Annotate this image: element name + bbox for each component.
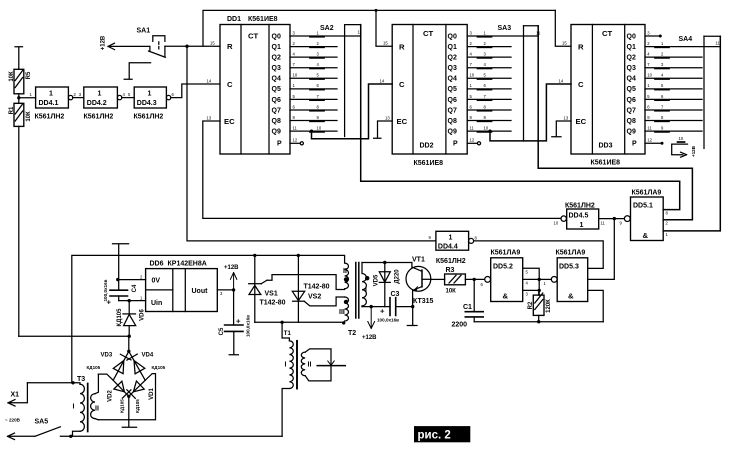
svg-text:Q5: Q5 — [627, 86, 636, 93]
svg-text:К561ЛН2: К561ЛН2 — [35, 114, 65, 121]
svg-text:VD3: VD3 — [101, 353, 113, 359]
svg-text:1: 1 — [148, 91, 152, 98]
wire DD6 Uout to +12V node — [217, 289, 233, 291]
bridge right corner loop to T3 II bottom — [98, 374, 155, 420]
svg-text:11: 11 — [470, 126, 475, 131]
svg-text:Q0: Q0 — [272, 33, 281, 40]
svg-text:100,0х16в: 100,0х16в — [246, 315, 251, 337]
svg-text:10: 10 — [293, 73, 298, 78]
diode VD6 КД105 — [117, 301, 145, 337]
svg-text:Q7: Q7 — [448, 107, 457, 114]
wire junction to R1 — [18, 98, 20, 104]
svg-text:13: 13 — [385, 116, 390, 121]
svg-text:Q1: Q1 — [448, 44, 457, 51]
svg-text:P: P — [277, 141, 282, 148]
svg-text:II: II — [343, 268, 347, 275]
bridge rectifier VD1-VD4 КД105 — [87, 336, 166, 427]
svg-text:VD4: VD4 — [142, 353, 154, 359]
+12V arrow at DD6 output — [230, 273, 236, 290]
wire DD4.2 to DD4.3 — [122, 97, 134, 99]
svg-text:КД105: КД105 — [135, 399, 140, 413]
inverter DD4.1 — [35, 87, 73, 121]
svg-text:DD5.3: DD5.3 — [559, 263, 579, 270]
svg-text:1: 1 — [580, 222, 584, 229]
svg-text:12: 12 — [293, 138, 298, 143]
counter DD1 К561ИЕ8 — [207, 16, 291, 154]
wire T2-II bottom to VS1 gate — [267, 275, 345, 290]
diode VD4 top-right edge — [129, 351, 145, 380]
svg-text:К561ИЕ8: К561ИЕ8 — [414, 160, 444, 167]
svg-text:10К: 10К — [26, 111, 32, 122]
counter DD3 К561ИЕ8 — [559, 25, 646, 167]
svg-text:III: III — [339, 309, 345, 316]
svg-text:рис. 2: рис. 2 — [418, 430, 451, 442]
svg-text:Q4: Q4 — [627, 76, 636, 83]
inverter DD4.5 — [554, 203, 599, 230]
svg-text:С5: С5 — [219, 327, 225, 335]
svg-text:1: 1 — [98, 91, 102, 98]
NAND gate DD5.2 — [481, 250, 523, 302]
svg-text:КТ315: КТ315 — [413, 298, 434, 305]
svg-text:1: 1 — [449, 234, 453, 241]
svg-text:Q7: Q7 — [272, 107, 281, 114]
svg-text:C1: C1 — [463, 304, 472, 311]
svg-text:К561ЛН2: К561ЛН2 — [134, 114, 164, 121]
220V bottom rail — [60, 435, 282, 437]
svg-text:К561ЛН2: К561ЛН2 — [84, 114, 114, 121]
R bus top wire — [203, 10, 555, 46]
svg-text:CT: CT — [602, 29, 613, 38]
svg-text:II: II — [308, 362, 312, 369]
svg-text:SA5: SA5 — [35, 419, 49, 426]
svg-text:R: R — [578, 43, 584, 52]
svg-text:Q2: Q2 — [448, 55, 457, 62]
svg-text:EC: EC — [397, 117, 408, 126]
svg-text:С4: С4 — [132, 284, 138, 292]
svg-text:EC: EC — [576, 117, 587, 126]
svg-text:DD4.3: DD4.3 — [137, 100, 157, 107]
svg-text:R2: R2 — [528, 301, 534, 309]
SA4 common down to DD5.1 pin 1 — [663, 36, 720, 231]
svg-text:DD6: DD6 — [150, 261, 164, 268]
svg-text:Q0: Q0 — [627, 33, 636, 40]
svg-text:CT: CT — [423, 29, 434, 38]
wire SA1 to DD1 R — [165, 45, 220, 47]
svg-text:14: 14 — [380, 79, 385, 84]
inverter DD4.3 — [134, 87, 171, 121]
svg-text:К561ЛА9: К561ЛА9 — [632, 190, 662, 197]
resistor R3 — [431, 267, 484, 295]
svg-text:VD5: VD5 — [373, 274, 379, 286]
svg-text:10К: 10К — [9, 71, 15, 82]
bottom rail C1-R2-DD5.3 — [474, 321, 603, 323]
svg-text:VD1: VD1 — [149, 388, 155, 400]
svg-text:10: 10 — [554, 221, 559, 226]
svg-text:II: II — [95, 406, 99, 413]
wire DD4.1 to DD4.2 — [73, 97, 84, 99]
wire DD1 Q9 to DD2 C — [312, 84, 393, 139]
terminal bar above R5 — [15, 47, 23, 70]
+12V arrow under T2 winding I — [362, 305, 377, 341]
connector X1 arrows — [8, 383, 73, 406]
svg-text:К561ЛА9: К561ЛА9 — [556, 250, 586, 257]
switch SA3 — [498, 25, 542, 141]
svg-text:SA1: SA1 — [137, 28, 151, 35]
diode VD5 Д220 — [373, 263, 400, 307]
svg-text:11: 11 — [601, 221, 606, 226]
svg-text:VD6: VD6 — [139, 309, 145, 321]
svg-text:I: I — [285, 362, 287, 369]
svg-text:Q8: Q8 — [627, 118, 636, 125]
switch SA2 — [320, 25, 363, 137]
svg-text:К561ЛН2: К561ЛН2 — [436, 258, 466, 265]
resistor R2 — [528, 293, 552, 322]
switch SA5 — [5, 418, 60, 440]
svg-text:К561ЛА9: К561ЛА9 — [491, 250, 521, 257]
DD5.2 input pins 3,4,5 tied — [523, 268, 540, 295]
svg-text:+12В: +12В — [224, 265, 239, 271]
wire T2-III top to VS2 gate — [304, 297, 344, 306]
svg-text:Q3: Q3 — [272, 65, 281, 72]
svg-text:14: 14 — [559, 79, 564, 84]
wire R bus to DD3 R — [555, 10, 571, 46]
svg-text:Q5: Q5 — [448, 86, 457, 93]
thyristor VS1 Т142-80 — [249, 255, 286, 322]
svg-text:15: 15 — [383, 41, 388, 46]
svg-text:15: 15 — [210, 41, 215, 46]
svg-text:Q8: Q8 — [448, 118, 457, 125]
svg-text:100,0х16в: 100,0х16в — [377, 318, 399, 323]
bridge minus lead and bar — [127, 395, 130, 398]
regulator DD6 КР142ЕН8А — [146, 261, 218, 312]
SA2 common down and to DD5.1 pin 8 — [361, 25, 680, 210]
svg-text:Q2: Q2 — [627, 55, 636, 62]
svg-text:10: 10 — [679, 136, 684, 141]
svg-text:Q8: Q8 — [272, 118, 281, 125]
svg-text:Q7: Q7 — [627, 107, 636, 114]
svg-text:0V: 0V — [152, 278, 161, 285]
svg-text:DD1: DD1 — [227, 16, 241, 23]
T2 winding II — [345, 263, 349, 289]
svg-text:&: & — [568, 292, 574, 301]
capacitor C3 — [362, 291, 413, 323]
svg-text:14: 14 — [207, 79, 212, 84]
svg-text:DD4.1: DD4.1 — [39, 100, 59, 107]
svg-text:X1: X1 — [11, 392, 20, 399]
svg-text:DD5.2: DD5.2 — [493, 263, 513, 270]
DD2 EC stub to common bar — [374, 121, 393, 138]
svg-text:DD2: DD2 — [420, 143, 434, 150]
counter DD2 К561ИЕ8 — [380, 25, 468, 168]
transformer T3 — [73, 374, 99, 436]
svg-text:DD4.4: DD4.4 — [438, 243, 458, 250]
svg-text:R1: R1 — [9, 106, 15, 114]
svg-text:+: + — [236, 317, 241, 326]
svg-text:+12В: +12В — [362, 335, 377, 341]
thyristor anode rail — [255, 321, 344, 323]
wire DD6 Uin from C4 bottom — [119, 300, 146, 302]
svg-text:10: 10 — [317, 126, 322, 131]
svg-text:&: & — [643, 231, 649, 240]
NAND gate DD5.1 — [624, 190, 663, 241]
wire R1 down to bridge line — [18, 126, 20, 336]
+12V bracket at SA4 position 10 — [672, 144, 696, 157]
svg-text:C: C — [227, 80, 233, 89]
diode VD2 bottom-left edge — [113, 380, 129, 396]
svg-text:DD3: DD3 — [599, 143, 613, 150]
NAND gate DD5.3 — [551, 250, 587, 302]
svg-text:10: 10 — [470, 73, 475, 78]
svg-text:T3: T3 — [77, 376, 85, 383]
diode VD3 top-left edge — [113, 351, 129, 380]
svg-text:Q9: Q9 — [272, 129, 281, 136]
wire R node down to DD4.4 input — [187, 46, 436, 241]
node bridge plus line — [19, 335, 129, 337]
wire junction to DD4.1 pin 1 — [19, 97, 36, 99]
svg-text:100,0х16в: 100,0х16в — [103, 279, 108, 301]
thyristor VS2 Т142-80 — [292, 255, 329, 322]
stub under SA1 to common bar — [124, 63, 150, 79]
bridge left corner wire to T3 II — [98, 374, 113, 380]
diode VD1 bottom-right edge — [129, 380, 145, 396]
svg-text:Q6: Q6 — [627, 97, 636, 104]
T2 winding III — [344, 297, 349, 323]
capacitor C5 — [219, 290, 251, 355]
pushbutton SA1 — [137, 28, 166, 58]
svg-text:VT1: VT1 — [412, 257, 425, 264]
node junction R1/R5/DD4.1 — [17, 96, 20, 99]
svg-text:VS1: VS1 — [265, 291, 278, 298]
resistor R5 — [9, 69, 32, 94]
svg-text:I: I — [73, 404, 75, 411]
contact arrow in T1 secondary — [317, 365, 345, 367]
capacitor C1 — [452, 279, 484, 328]
DD5.3 lower input from R2/C1 rail — [588, 290, 604, 321]
svg-text:SA4: SA4 — [679, 36, 693, 43]
svg-text:КД105: КД105 — [119, 399, 124, 413]
svg-text:Т1: Т1 — [284, 331, 292, 337]
svg-text:10К: 10К — [446, 289, 457, 295]
svg-text:Q4: Q4 — [272, 76, 281, 83]
common 220V rail across power section — [72, 255, 345, 382]
svg-text:120К: 120К — [546, 299, 552, 313]
wire node to DD5.3 output — [539, 278, 551, 280]
svg-text:15: 15 — [562, 41, 567, 46]
svg-text:Q4: Q4 — [448, 76, 457, 83]
svg-text:C3: C3 — [391, 291, 400, 298]
wire R bus to DD2 R — [376, 10, 392, 46]
svg-text:R5: R5 — [26, 71, 32, 79]
switch SA4 — [679, 36, 721, 148]
wire DD4.3 output to DD1 C input — [171, 84, 220, 98]
svg-text:&: & — [503, 292, 509, 301]
svg-text:Q5: Q5 — [272, 86, 281, 93]
svg-text:Q1: Q1 — [627, 44, 636, 51]
svg-text:~ 220В: ~ 220В — [5, 418, 21, 423]
svg-text:12: 12 — [470, 138, 475, 143]
DD3 EC stub to common bar — [552, 121, 571, 137]
svg-text:SA2: SA2 — [320, 25, 334, 32]
svg-text:Uin: Uin — [151, 300, 162, 307]
svg-text:T2: T2 — [348, 330, 356, 337]
wire DD2 Q9 to DD3 C — [490, 84, 571, 141]
svg-text:Q9: Q9 — [627, 129, 636, 136]
svg-text:SA3: SA3 — [498, 25, 512, 32]
svg-text:DD4.2: DD4.2 — [87, 100, 107, 107]
svg-text:Т142-80: Т142-80 — [304, 284, 330, 291]
svg-text:P: P — [453, 141, 458, 148]
wire DD4.5 out to DD5.1 and node to DD5.3 — [599, 218, 625, 220]
svg-text:VS2: VS2 — [308, 294, 321, 301]
T1 winding II loop — [301, 352, 305, 376]
SA3 common down and to DD5.1 pin 2 — [538, 26, 692, 220]
svg-text:R3: R3 — [446, 267, 455, 274]
transistor VT1 КТ315 — [406, 257, 434, 307]
figure caption plate — [414, 426, 470, 442]
svg-text:R: R — [399, 43, 405, 52]
inverter DD4.2 — [84, 87, 122, 121]
node SA1/R junction — [185, 45, 188, 48]
VT1 emitter ground bar — [407, 307, 417, 326]
svg-text:КД105: КД105 — [152, 365, 166, 370]
transformer T1 — [282, 322, 345, 436]
svg-text:VD2: VD2 — [107, 390, 113, 402]
svg-text:Q6: Q6 — [448, 97, 457, 104]
wire R5 to junction — [18, 94, 20, 98]
svg-text:2200: 2200 — [452, 322, 468, 329]
svg-text:Д220: Д220 — [395, 269, 401, 284]
wire DD4.4 out to DD5.3 input — [474, 241, 604, 269]
svg-text:12: 12 — [647, 138, 652, 143]
wire DD1 EC to common EC bus to DD4.5 — [203, 121, 561, 218]
svg-text:13: 13 — [564, 116, 569, 121]
svg-text:EC: EC — [224, 117, 235, 126]
svg-text:I: I — [365, 287, 367, 294]
svg-text:Q0: Q0 — [448, 33, 457, 40]
resistor R1 — [9, 103, 32, 126]
svg-text:C: C — [578, 80, 584, 89]
transformer T2 — [339, 263, 369, 338]
svg-text:Q9: Q9 — [448, 129, 457, 136]
svg-text:Q2: Q2 — [272, 55, 281, 62]
svg-text:КР142ЕН8А: КР142ЕН8А — [168, 261, 207, 268]
svg-text:Q3: Q3 — [448, 65, 457, 72]
tick bar above C4 node — [113, 244, 129, 291]
wire T2-I top / VD5 / VT1 base — [362, 262, 412, 264]
svg-text:Uout: Uout — [192, 288, 209, 295]
svg-text:13: 13 — [207, 116, 212, 121]
svg-text:C: C — [399, 80, 405, 89]
svg-text:К561ИЕ8: К561ИЕ8 — [248, 16, 278, 23]
svg-text:11: 11 — [647, 126, 652, 131]
svg-text:К561ИЕ8: К561ИЕ8 — [591, 160, 621, 167]
svg-text:+12В: +12В — [691, 145, 696, 157]
svg-text:10: 10 — [647, 73, 652, 78]
svg-text:11: 11 — [293, 126, 298, 131]
svg-text:+12В: +12В — [101, 35, 107, 50]
svg-text:DD5.1: DD5.1 — [633, 203, 653, 210]
T2 core — [356, 263, 359, 319]
svg-text:Q3: Q3 — [627, 65, 636, 72]
svg-text:CT: CT — [248, 32, 259, 41]
svg-text:КД105: КД105 — [87, 365, 101, 370]
T2 winding I — [362, 263, 366, 307]
svg-text:10: 10 — [484, 126, 489, 131]
svg-text:R: R — [227, 42, 233, 51]
svg-text:Q1: Q1 — [272, 44, 281, 51]
capacitor C4 — [103, 279, 138, 306]
svg-text:Q6: Q6 — [272, 97, 281, 104]
svg-text:+: + — [380, 307, 385, 316]
+12V arrow at SA1 — [101, 35, 150, 50]
svg-text:1: 1 — [49, 91, 53, 98]
svg-text:Т142-80: Т142-80 — [260, 300, 286, 307]
svg-text:DD4.5: DD4.5 — [569, 213, 589, 220]
svg-text:КД105: КД105 — [117, 308, 123, 327]
svg-text:P: P — [632, 141, 637, 148]
inverter DD4.4 — [436, 231, 478, 265]
wire DD6 0V to C4 top node — [118, 279, 146, 281]
